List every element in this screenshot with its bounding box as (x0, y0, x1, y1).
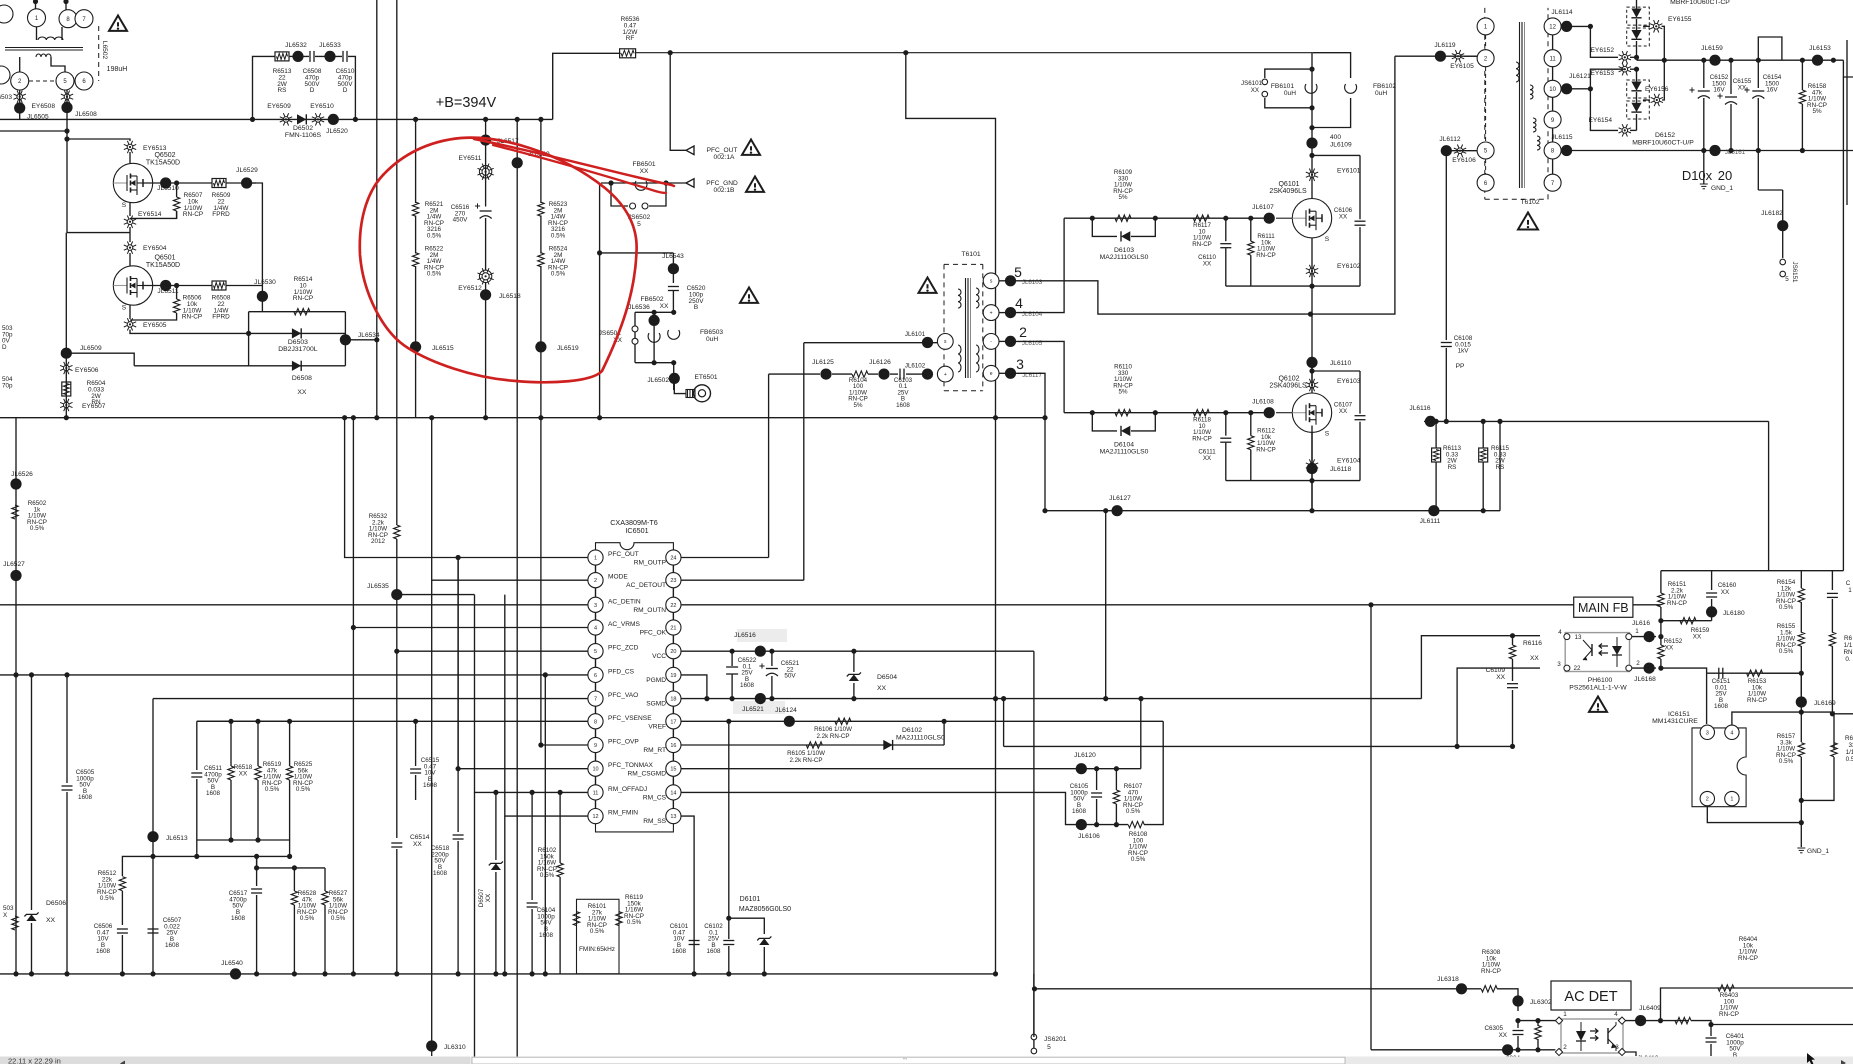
svg-text:RN-CP: RN-CP (1192, 435, 1212, 442)
svg-text:D6101: D6101 (740, 896, 761, 903)
junction dot x=670 (668, 50, 673, 55)
wire VCC line pin20 (681, 650, 1034, 652)
JL6114 node (1561, 25, 1590, 27)
JL6106 node (1076, 819, 1087, 830)
svg-text:GND_1: GND_1 (1711, 185, 1733, 192)
wire top pins up (35, 0, 37, 9)
svg-text:+B=394V: +B=394V (436, 95, 497, 111)
svg-text:S: S (1325, 236, 1330, 243)
svg-text:0uH: 0uH (1375, 90, 1387, 97)
svg-text:20: 20 (670, 649, 676, 655)
JL6502 node (669, 373, 680, 384)
resistor R6106 (835, 718, 851, 724)
opto transistor (1607, 1028, 1609, 1044)
svg-text:8: 8 (594, 719, 597, 725)
svg-text:2: 2 (1706, 797, 1709, 803)
svg-text:R6105 1/10W: R6105 1/10W (787, 750, 825, 757)
wire EY6513 to Q6502 drain (129, 152, 131, 163)
JL6115 node (1561, 145, 1572, 156)
svg-text:RS: RS (1448, 464, 1457, 471)
IC6151 body (1692, 728, 1746, 807)
svg-text:RM_SS: RM_SS (643, 818, 666, 825)
transistor Q6502 TK15A50D (113, 163, 152, 202)
svg-text:D6502: D6502 (293, 125, 313, 132)
rail junction dots upper (1662, 58, 1667, 63)
svg-text:MAZ8056G0LS0: MAZ8056G0LS0 (739, 906, 791, 913)
svg-text:XX: XX (297, 389, 307, 396)
wire opto pin2 bottom line (1371, 1049, 1555, 1051)
svg-text:JL6516: JL6516 (734, 632, 756, 639)
EY6506 test point (60, 362, 72, 374)
JL6102 node (922, 369, 933, 380)
transistor Q6102 2SK4096LS (1276, 412, 1292, 414)
capacitor C6152 (1703, 60, 1705, 88)
svg-text:1: 1 (1848, 587, 1852, 594)
wire JL6535 line (397, 594, 475, 596)
EY6505 test point (124, 318, 136, 330)
source loop line (1226, 480, 1360, 482)
capacitor C6520 (668, 287, 679, 291)
svg-text:C: C (1846, 580, 1851, 587)
svg-text:EY6106: EY6106 (1452, 157, 1476, 164)
ferrite bead FB6101 (1305, 84, 1317, 93)
vertical x=495.9 D6507 (495, 792, 497, 860)
wire pin11 line (475, 595, 588, 793)
510 line right end (1499, 421, 1501, 510)
svg-text:16V: 16V (1713, 87, 1725, 94)
ferrite bead FB6502 middle (653, 312, 655, 362)
svg-text:JL616: JL616 (1632, 620, 1650, 627)
T6101 pin 2 (983, 334, 999, 350)
earth terminal ET6501 (674, 378, 686, 393)
resistor column R6523 (540, 119, 542, 203)
svg-text:RN-CP: RN-CP (1192, 241, 1212, 248)
wire bus to MOSFET chain (66, 119, 68, 232)
junction dot bridge left (246, 331, 251, 336)
JL6540 node (230, 968, 241, 979)
svg-text:0uH: 0uH (1284, 90, 1296, 97)
svg-text:JL6124: JL6124 (775, 707, 797, 714)
junction dot x=906 (903, 50, 908, 55)
svg-text:18: 18 (670, 697, 676, 703)
wire JL6543 branch (600, 252, 674, 254)
JL6117 node (999, 372, 1011, 374)
svg-text:RN-CP: RN-CP (293, 295, 313, 302)
svg-text:C6160: C6160 (1718, 582, 1737, 589)
wire x=1003.6 riser (1003, 699, 1005, 747)
D6151 diode bottom (1631, 30, 1641, 39)
svg-text:EY6155: EY6155 (1668, 16, 1692, 23)
wire EY6505 to bridge (130, 330, 249, 334)
svg-text:AC_VRMS: AC_VRMS (608, 621, 640, 628)
svg-text:EY6503: EY6503 (0, 94, 12, 101)
wire Q6502 source to EY6514 (129, 203, 131, 216)
T6102 pin 5 (1477, 142, 1494, 159)
JL6302 node (1512, 995, 1523, 1006)
JL6121 node (1561, 88, 1590, 90)
capacitor C6515 (415, 721, 417, 766)
resistor R6309 parallel (1537, 1021, 1539, 1026)
T6101 right winding lower (976, 345, 979, 372)
drain vertical (1311, 155, 1313, 198)
svg-text:16V: 16V (1766, 87, 1778, 94)
IC6501 pin 12 RM_FMIN (588, 809, 603, 824)
svg-text:FB6101: FB6101 (1271, 83, 1294, 90)
EY6106 test point (1454, 145, 1466, 157)
svg-text:PFC_VSENSE: PFC_VSENSE (608, 715, 652, 722)
diode D6503 (249, 332, 346, 334)
svg-text:PFC_ZCD: PFC_ZCD (608, 645, 639, 652)
T6102 sec winding lower (1533, 118, 1536, 132)
svg-text:JL6161: JL6161 (1725, 149, 1746, 156)
test point EY6104 (1306, 459, 1318, 471)
capacitor C6105 (1096, 769, 1098, 790)
svg-text:D10x: D10x (1682, 168, 1713, 183)
svg-text:RM_CS: RM_CS (643, 794, 667, 801)
svg-text:RM_OUTN: RM_OUTN (633, 607, 666, 614)
svg-text:DB2J31700L: DB2J31700L (278, 346, 318, 353)
svg-text:0.5%: 0.5% (427, 233, 442, 240)
resistor R6503 partial (12, 916, 18, 930)
EY6513 test point (124, 141, 136, 153)
IC6501 pin 21 PFC_OK (666, 620, 681, 635)
svg-text:MBRF10U60CT-CP: MBRF10U60CT-CP (1670, 0, 1730, 6)
wire FB6501 row (601, 182, 666, 184)
IC6501 pin 6 PFD_CS (588, 667, 603, 682)
svg-text:RN: RN (1843, 649, 1853, 656)
capacitor C6103 series (890, 373, 898, 375)
svg-text:RF: RF (626, 35, 635, 42)
resistor R6532 (394, 525, 400, 539)
JL6304 node (1502, 1044, 1513, 1055)
wire corner to pin24 (768, 374, 770, 557)
junction dot R6507 top (174, 180, 179, 185)
resistor R6159 (1680, 618, 1696, 624)
resistor R6105 (806, 742, 822, 748)
wire bridge out to vertical (345, 339, 376, 341)
IC6501 pin 13 RM_SS (666, 809, 681, 824)
JL6109 node (1306, 138, 1317, 149)
svg-text:EY6507: EY6507 (82, 403, 106, 410)
wire corner down to AC DET (1497, 989, 1518, 1011)
opto LED (1576, 1031, 1586, 1041)
svg-text:D6508: D6508 (292, 375, 312, 382)
svg-text:PFC_OK: PFC_OK (640, 630, 667, 637)
svg-text:XX: XX (1339, 213, 1347, 220)
wire SGMD riser (1105, 511, 1107, 699)
T6101 left winding lower (958, 345, 961, 372)
svg-text:RN-CP: RN-CP (1747, 697, 1767, 704)
wire pin22 RM_OUTN line (681, 604, 1661, 606)
svg-text:16: 16 (670, 743, 676, 749)
wire pin24 to JL6125 riser (681, 557, 769, 559)
svg-text:EY6512: EY6512 (458, 285, 482, 292)
EY6511 test point (478, 164, 494, 180)
svg-text:0.5%: 0.5% (300, 915, 315, 922)
JL6409 node (1626, 1020, 1689, 1022)
IC6501 pin 20 VCC (666, 644, 681, 659)
wire pins to winding top (36, 27, 38, 40)
wire VREF line pin17 (681, 720, 1163, 722)
svg-text:RN-CP: RN-CP (1738, 955, 1758, 962)
svg-text:JL6159: JL6159 (1701, 45, 1723, 52)
C6151 to R6153 right end (1762, 672, 1801, 674)
resistor R6111 (1250, 218, 1252, 241)
svg-text:PFC_TONMAX: PFC_TONMAX (608, 762, 654, 769)
IC6501 pin 24 RM_OUTP (666, 550, 681, 565)
svg-text:''': ''' (903, 1059, 906, 1064)
svg-text:24: 24 (670, 556, 676, 562)
svg-text:JL6118: JL6118 (1330, 466, 1351, 473)
resistor column R6521 (415, 119, 417, 203)
JL6180 node (1706, 606, 1717, 617)
resistor R6102 (557, 863, 563, 877)
T6102 sec winding lowest (1537, 136, 1540, 150)
svg-text:11: 11 (593, 790, 599, 796)
vertical x=504.8 (504, 816, 506, 974)
svg-text:JL6515: JL6515 (432, 345, 454, 352)
wire vertical to main fb rail (1768, 421, 1770, 570)
svg-text:D: D (310, 87, 315, 94)
svg-text:FMN-1106S: FMN-1106S (285, 132, 322, 139)
svg-text:2.2k RN-CP: 2.2k RN-CP (816, 733, 849, 740)
L6502 primary winding (38, 37, 63, 40)
wire VREF drop to D6101 (728, 721, 730, 918)
svg-text:JL6509: JL6509 (80, 345, 102, 352)
svg-text:1: 1 (1563, 1011, 1567, 1018)
resistor R6115 boxed (1482, 421, 1484, 448)
wire JL6112 down through C6108 (1445, 151, 1447, 340)
svg-text:5: 5 (637, 221, 641, 228)
svg-text:14: 14 (670, 790, 676, 796)
wire pin8 row (1560, 150, 1562, 152)
wire pin9 line PFC_OVP (541, 744, 588, 746)
svg-text:50V: 50V (784, 673, 796, 680)
opto pins diamonds (1555, 1017, 1562, 1024)
svg-text:PFC_OUT: PFC_OUT (707, 147, 738, 154)
svg-text:3: 3 (594, 603, 597, 609)
resistor R6518 (230, 721, 232, 766)
MAIN FB box (1574, 597, 1633, 617)
column x=31.5 D6506 (31, 675, 33, 910)
svg-text:EY6511: EY6511 (459, 155, 482, 162)
svg-text:e: e (990, 371, 993, 377)
svg-text:2: 2 (1636, 660, 1640, 667)
svg-text:JL6180: JL6180 (1723, 610, 1745, 617)
JL6516 node (755, 646, 766, 657)
transformer L6502 (5, 48, 83, 51)
EY6512 test point (478, 268, 494, 284)
svg-text:3: 3 (1557, 661, 1561, 668)
lower output rail JL6115 (1561, 150, 1853, 152)
wire right column down (1757, 151, 1759, 191)
svg-text:JL6533: JL6533 (319, 42, 341, 49)
block bottom edge (197, 839, 290, 841)
IC6501 pin 2 MODE (588, 573, 603, 588)
D6152 diode top (1631, 82, 1641, 91)
IC6501 pin 16 RM_RT (666, 737, 681, 752)
JL6103 node (999, 280, 1011, 282)
capacitor C6506 (117, 929, 128, 933)
wire x=995 long vertical (906, 53, 996, 699)
VREF dots (726, 719, 731, 724)
JL6126 node (878, 369, 889, 380)
svg-text:0.5%: 0.5% (1779, 604, 1794, 611)
svg-text:AC_DETIN: AC_DETIN (608, 598, 641, 605)
svg-text:EY6514: EY6514 (138, 211, 162, 218)
svg-text:XX: XX (239, 770, 248, 777)
svg-text:MA2J1110GLS0: MA2J1110GLS0 (896, 735, 945, 742)
capacitor C6518 (457, 769, 459, 832)
svg-text:EY6153: EY6153 (1591, 70, 1615, 77)
svg-text:R6116: R6116 (1523, 640, 1542, 647)
svg-text:JL6127: JL6127 (1109, 495, 1131, 502)
wire EY6504 to Q6501 (129, 253, 131, 266)
svg-text:+: + (944, 372, 947, 378)
JL6520 node (328, 114, 339, 125)
svg-text:EY6103: EY6103 (1337, 378, 1361, 385)
junction dot R6506 top (174, 283, 179, 288)
svg-text:JL6513: JL6513 (166, 835, 188, 842)
cap branch C6 (1312, 370, 1360, 372)
svg-text:MA2J1110GLS0: MA2J1110GLS0 (1100, 449, 1149, 456)
connector JS6502 loop (611, 183, 628, 206)
JL6539 node (512, 157, 523, 168)
svg-text:VREF: VREF (648, 723, 666, 730)
svg-text:1608: 1608 (433, 870, 448, 877)
svg-text:70p: 70p (2, 382, 13, 389)
JL6527 node (10, 570, 21, 581)
JL6101 node (804, 342, 937, 344)
svg-text:9: 9 (594, 743, 597, 749)
wire SGMD line pin18 (681, 698, 1421, 700)
upper output rail (1637, 59, 1844, 61)
svg-text:PFC_OUT: PFC_OUT (608, 551, 639, 558)
PH6100 arrows (1599, 644, 1608, 649)
junction dot bridge out (374, 337, 379, 342)
resistor R6506 (176, 286, 178, 300)
capacitor side C6106 (1359, 155, 1361, 219)
JL6116 node (1425, 416, 1436, 427)
PFC_OUT arrow (686, 146, 694, 155)
wire x=1371 vertical (1370, 605, 1372, 1050)
IC6501 pin 7 PFC_VAO (588, 691, 603, 706)
EY6105 test point (1452, 50, 1464, 62)
svg-text:JL6540: JL6540 (221, 960, 243, 967)
svg-text:R6: R6 (1844, 635, 1853, 642)
capacitor C6505 (66, 675, 68, 783)
JL6107 node gate (1264, 213, 1275, 224)
JL6104 node (999, 312, 1011, 314)
svg-text:2SK4096LS: 2SK4096LS (1269, 383, 1307, 390)
svg-text:XX: XX (485, 893, 492, 902)
junction C6151 line end (1799, 671, 1804, 676)
JL6169 node (1796, 696, 1807, 707)
svg-text:1608: 1608 (896, 402, 910, 409)
wire pin6 line PFD_CS (0, 674, 588, 676)
svg-text:503: 503 (3, 905, 14, 912)
svg-text:0.5%: 0.5% (1779, 648, 1794, 655)
svg-text:XX: XX (1203, 260, 1211, 267)
diode D6508 (134, 365, 345, 367)
svg-text:1kV: 1kV (1458, 348, 1470, 355)
wire pin2 row to C6151 (1661, 668, 1707, 673)
wire pin22 long line right portion (1368, 602, 1373, 607)
rail junction dots (64, 415, 69, 420)
resistor R6507 (176, 183, 178, 197)
svg-text:JL6511: JL6511 (157, 288, 178, 295)
svg-text:XX: XX (640, 168, 649, 175)
svg-text:RN-CP: RN-CP (1256, 252, 1276, 259)
lattice dots pin1 line (342, 415, 347, 420)
JL6153 node (1812, 55, 1823, 66)
svg-text:1608: 1608 (539, 932, 554, 939)
wire x=995 riser (995, 699, 997, 974)
capacitor C6109 (1507, 684, 1518, 688)
resistor R6151 (1660, 571, 1662, 593)
svg-text:XX: XX (46, 917, 56, 924)
wire pin4 line (352, 418, 354, 974)
svg-text:T6102: T6102 (1520, 199, 1539, 206)
wire pin2 to EY6503 to JL6505 (19, 90, 21, 119)
svg-text:Q6101: Q6101 (1278, 181, 1299, 188)
svg-text:19: 19 (670, 673, 676, 679)
svg-text:JL6107: JL6107 (1252, 204, 1274, 211)
svg-text:FB6503: FB6503 (700, 329, 723, 336)
junction dot left vertical (597, 250, 602, 255)
JL6529 node (241, 177, 252, 188)
wire R6508 to JL6530 (226, 285, 262, 287)
wire chain x=66 lower (65, 233, 67, 418)
wire pin5 to EY6508 to bus (66, 90, 68, 119)
wire JL6513 to block (153, 855, 290, 857)
vertical x=532.1 C6104 (531, 792, 533, 900)
branch wire up to R6513 (253, 56, 276, 119)
wire RM_CS line pin14 (681, 792, 1081, 824)
EY6156 test point (1643, 99, 1650, 101)
IC6501 pin 22 RM_OUTN (666, 597, 681, 612)
test point EY6101 (1306, 169, 1318, 181)
junction dot 2 (64, 136, 69, 141)
svg-text:FB6502: FB6502 (640, 296, 663, 303)
wire opto pin4 feed (1421, 636, 1540, 699)
svg-text:13: 13 (670, 814, 676, 820)
svg-text:EY6104: EY6104 (1337, 458, 1361, 465)
svg-text:JL6111: JL6111 (1420, 518, 1441, 525)
svg-text:JL6318: JL6318 (1437, 976, 1459, 983)
opto pin3 wire right (1626, 1052, 1636, 1056)
svg-text:JL6116: JL6116 (1409, 405, 1430, 412)
resistor R6504 boxed (62, 382, 71, 396)
JL6168 node (1632, 667, 1656, 669)
main fb top rail (1661, 570, 1844, 572)
JL6127 node (1112, 505, 1123, 516)
svg-text:GND_1: GND_1 (1807, 848, 1829, 855)
resistor R6525 (289, 721, 291, 766)
cap branch C6 (1312, 154, 1360, 156)
R6154 column (1800, 571, 1802, 588)
wire pin3 down to 510 line (1016, 373, 1045, 510)
svg-text:Q6501: Q6501 (154, 255, 175, 262)
capacitor C6111 (1225, 413, 1227, 436)
bottom line dots (1094, 822, 1099, 827)
resistor R61xx right2 (1831, 743, 1837, 757)
svg-text:XX: XX (1665, 645, 1674, 652)
junction R6512 branch (150, 854, 155, 859)
svg-text:D6152: D6152 (1655, 132, 1675, 139)
svg-text:D6507: D6507 (478, 888, 485, 907)
IC6151 pin 2 (1700, 791, 1714, 805)
